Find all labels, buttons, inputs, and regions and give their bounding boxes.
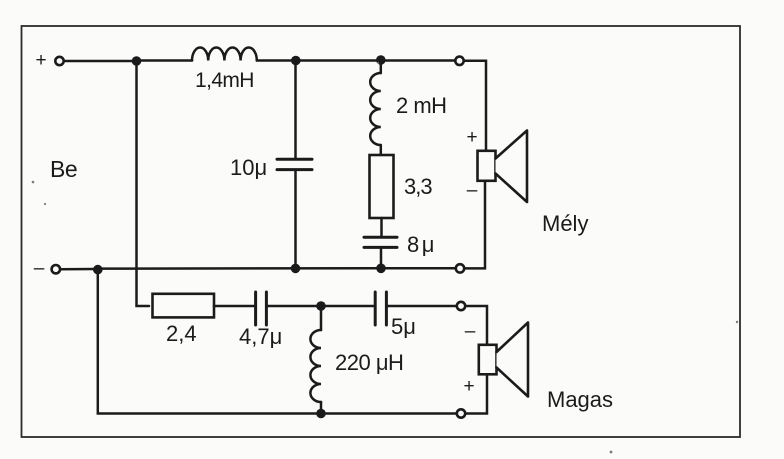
junction node A <box>132 56 142 66</box>
svg-text:–: – <box>465 321 476 342</box>
inductor L1 1,4mH <box>192 48 257 61</box>
wire minus rail node D to woofer minus terminal <box>98 267 456 270</box>
svg-text:220 μH: 220 μH <box>335 350 403 375</box>
wire resistor R2 to capacitor C2 <box>380 218 383 236</box>
terminal tweeter minus (open circle) <box>457 302 465 310</box>
wire woofer minus terminal to speaker LS1 <box>464 181 485 268</box>
wire capacitor C3 to node F <box>268 305 318 308</box>
wire inductor L3 to node G <box>320 402 323 414</box>
wire node B down to capacitor C1 <box>294 61 297 159</box>
svg-text:1,4mH: 1,4mH <box>195 69 254 92</box>
svg-text:+: + <box>463 376 474 397</box>
wire node A down to resistor R1 (crosses minus rail) <box>137 61 150 306</box>
resistor R1 2,4 <box>153 294 215 318</box>
svg-text:+: + <box>466 127 477 148</box>
inductor L2 2mH <box>370 73 381 145</box>
wire capacitor C2 to node E <box>380 248 383 268</box>
svg-text:5μ: 5μ <box>391 314 416 339</box>
wire node D down and along bottom rail <box>98 270 457 414</box>
speaker LS1 cone <box>496 131 528 203</box>
svg-text:Magas: Magas <box>547 387 613 412</box>
junction node G <box>316 409 326 419</box>
wire woofer plus terminal to speaker LS1 <box>464 61 486 151</box>
capacitor C3 4,7µ <box>256 292 267 325</box>
svg-text:10μ: 10μ <box>230 155 267 180</box>
speaker LS2 cone <box>497 323 529 397</box>
junction node C <box>376 55 386 65</box>
wire tweeter minus terminal to speaker LS2 <box>465 306 487 345</box>
svg-text:–: – <box>34 258 45 279</box>
wire tweeter plus terminal to speaker LS2 <box>465 374 487 413</box>
capacitor C1 10µ <box>277 159 312 169</box>
speaker LS1 driver <box>478 151 496 181</box>
wire node B to node C <box>296 59 377 62</box>
wire resistor R1 to capacitor C3 <box>214 305 254 308</box>
wire inductor L1 to node B <box>257 59 292 62</box>
wire inductor L2 to resistor R2 <box>380 145 383 155</box>
wire node A to inductor L1 <box>137 59 193 62</box>
junction capacitor C2 on minus rail <box>376 264 386 274</box>
junction capacitor C1 on minus rail <box>291 264 301 274</box>
svg-text:2,4: 2,4 <box>166 321 197 346</box>
terminal tweeter plus (open circle) <box>457 409 465 417</box>
svg-text:Be: Be <box>50 156 77 182</box>
wire minus terminal to node D <box>60 268 94 271</box>
capacitor C2 8µ <box>364 237 397 247</box>
svg-text:–: – <box>467 180 478 201</box>
svg-text:3,3: 3,3 <box>404 174 432 199</box>
wire node C to woofer plus terminal <box>381 59 455 62</box>
svg-text:2 mH: 2 mH <box>396 93 447 118</box>
junction node D <box>93 265 103 275</box>
svg-text:+: + <box>35 50 46 71</box>
wire capacitor C1 to minus rail <box>294 171 297 269</box>
svg-text:8μ: 8μ <box>407 232 437 257</box>
terminal woofer minus (open circle) <box>456 264 464 272</box>
wire node F to capacitor C4 <box>321 305 374 308</box>
capacitor C4 5µ <box>375 292 386 325</box>
junction node B <box>291 56 301 66</box>
junction node F <box>316 301 326 311</box>
wire node F down to inductor L3 <box>320 306 323 330</box>
speaker LS2 driver <box>479 345 497 375</box>
wire plus terminal to node A <box>64 60 133 63</box>
wire capacitor C4 to tweeter minus terminal <box>388 305 457 308</box>
wire node C down to inductor L2 <box>380 60 383 73</box>
svg-text:4,7μ: 4,7μ <box>239 324 282 349</box>
terminal woofer plus (open circle) <box>455 57 463 65</box>
svg-text:Mély: Mély <box>542 211 588 236</box>
inductor L3 220µH <box>310 330 321 402</box>
resistor R2 3,3 <box>370 155 394 218</box>
